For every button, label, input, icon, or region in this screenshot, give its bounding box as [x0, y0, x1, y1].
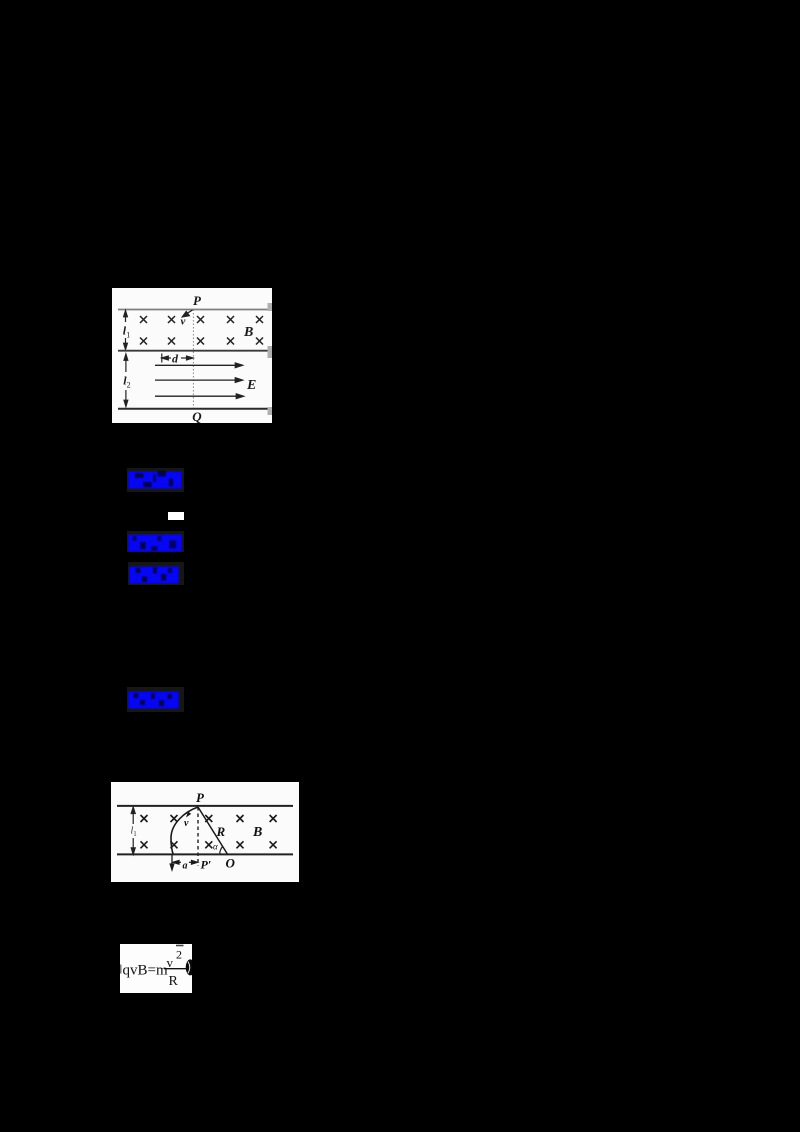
figure 2: circular arc trajectory in magnetic field band	[111, 782, 299, 882]
svg-text:B: B	[243, 325, 253, 340]
vertical dotted centre line	[192, 310, 194, 409]
svg-text:2: 2	[127, 381, 131, 390]
svg-text:v: v	[167, 955, 174, 970]
svg-text:a: a	[183, 860, 188, 871]
velocity arrowhead v on arc	[186, 812, 191, 818]
svg-text:P′: P′	[201, 858, 212, 872]
grey backing of label kaodian	[127, 468, 184, 492]
bottom boundary line Q	[118, 408, 271, 410]
formula qvB = m v^2 / R	[120, 944, 192, 993]
l1 dimension arrow	[124, 311, 128, 350]
blue label xiangjie	[127, 690, 180, 710]
svg-text:E: E	[246, 378, 256, 393]
grey backing of label daan	[127, 531, 184, 552]
blue label daan	[127, 533, 183, 553]
grey backing of label fenxi	[128, 562, 184, 585]
svg-text:v: v	[181, 316, 186, 328]
top boundary line P	[118, 309, 271, 311]
top boundary line	[117, 805, 293, 807]
field crosses row 1	[140, 316, 263, 323]
figure 1: charged particle entering magnetic field region over electric field region	[112, 288, 272, 423]
l1 dimension arrow	[131, 807, 135, 854]
electric field arrow 3	[155, 394, 244, 399]
svg-text:Q: Q	[192, 409, 202, 423]
grey backing of label xiangjie	[127, 687, 184, 712]
circular arc trajectory	[171, 807, 198, 854]
svg-text:R: R	[169, 974, 179, 989]
fraction bar	[164, 968, 188, 970]
radius line P to O	[198, 807, 228, 854]
svg-text:α: α	[213, 842, 218, 852]
svg-text:1: 1	[133, 830, 137, 838]
figure 1 white background	[112, 288, 272, 423]
field crosses row 2	[140, 338, 263, 345]
svg-text:qvB=m: qvB=m	[123, 963, 168, 979]
svg-text:P: P	[196, 790, 205, 805]
l2 dimension arrow	[124, 354, 128, 407]
small white formula fragment	[168, 512, 184, 520]
field crosses row 1	[141, 815, 277, 822]
svg-text:O: O	[226, 855, 236, 870]
svg-text:v: v	[184, 818, 189, 829]
field crosses row 2	[141, 841, 277, 848]
svg-text:1: 1	[126, 331, 130, 340]
angle alpha mark	[220, 846, 223, 854]
dark circled number at right edge	[186, 959, 195, 975]
svg-text:2: 2	[176, 948, 182, 962]
electric field arrow 1	[155, 363, 243, 368]
svg-text:B: B	[252, 825, 262, 840]
dashed vertical line P to P'	[197, 807, 199, 866]
left edge tick	[120, 965, 121, 974]
d dimension marker	[162, 354, 193, 363]
svg-text:P: P	[193, 293, 202, 308]
a dimension double arrow	[173, 860, 198, 864]
formula white background	[120, 944, 192, 993]
bottom boundary line	[117, 853, 293, 855]
middle boundary line	[118, 350, 271, 352]
svg-text:d: d	[172, 352, 179, 366]
blue label kaodian	[127, 470, 183, 490]
svg-text:R: R	[216, 824, 226, 839]
velocity arrow v	[182, 310, 192, 317]
blue label fenxi	[128, 565, 180, 585]
left tick below line	[170, 854, 174, 869]
overbar artifact above exponent	[176, 945, 184, 947]
right edge scan artifacts	[268, 303, 273, 311]
electric field arrow 2	[155, 378, 243, 383]
figure 2 white background	[111, 782, 299, 882]
